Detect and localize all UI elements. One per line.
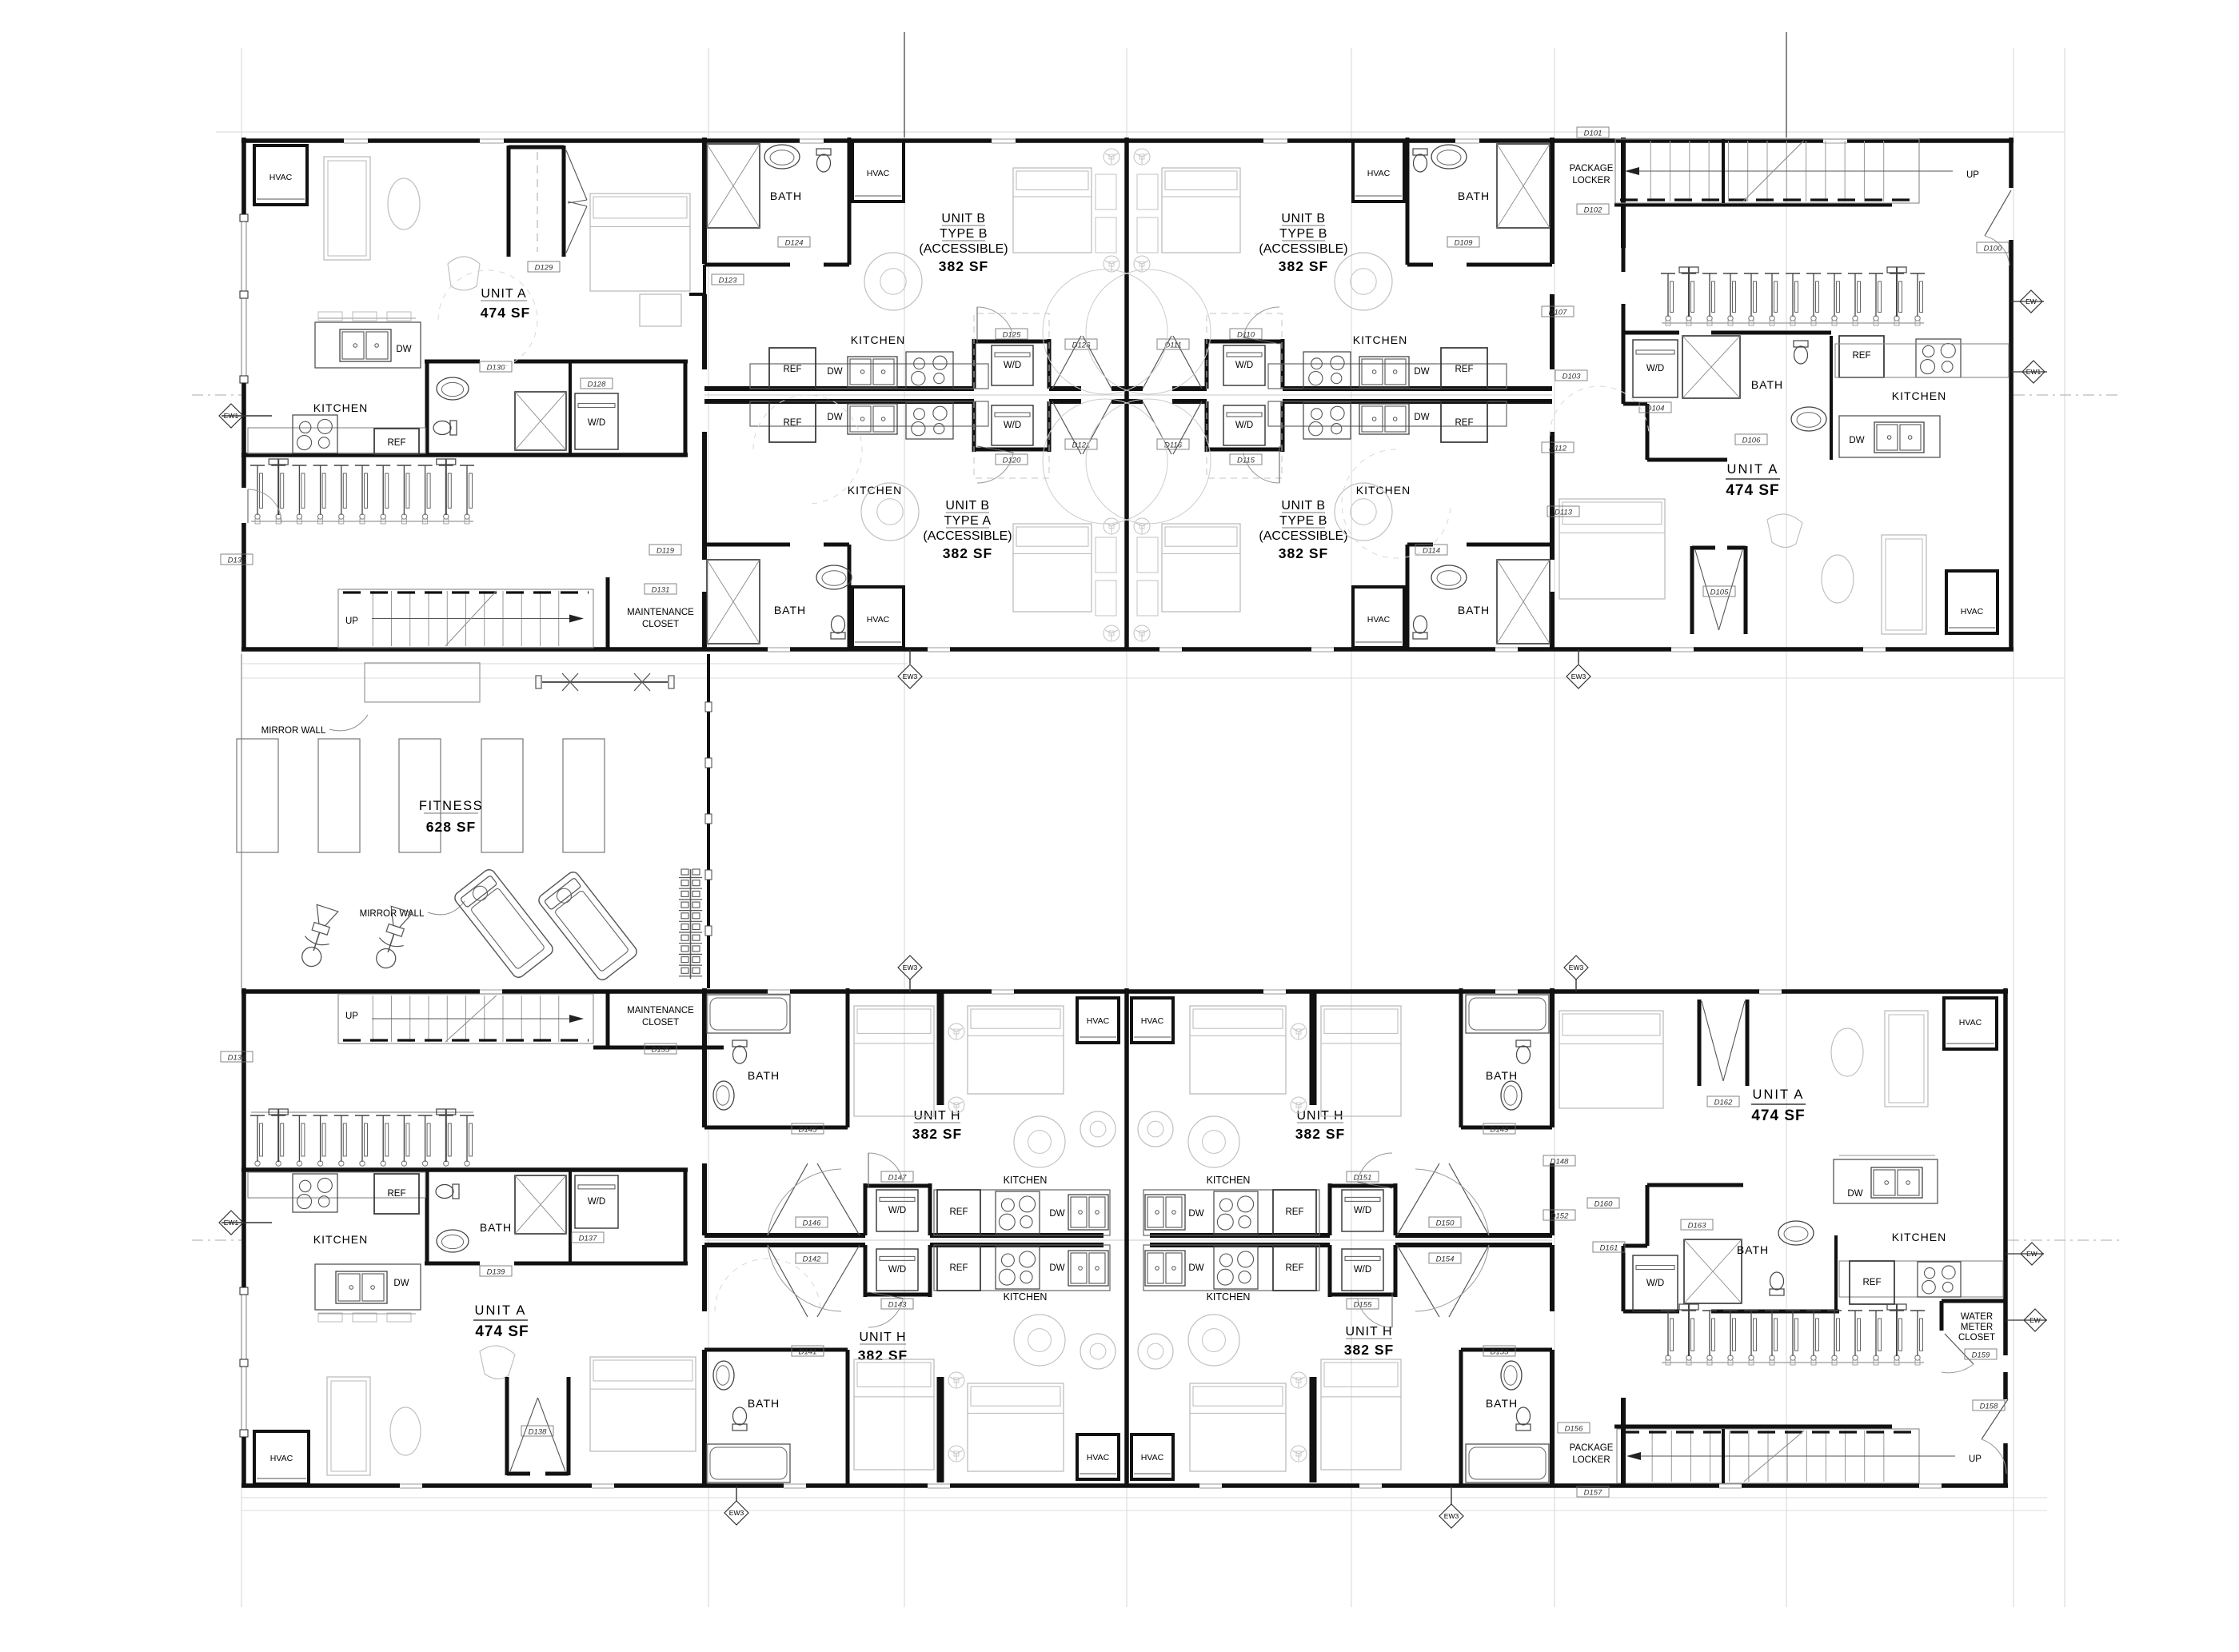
svg-text:BATH: BATH bbox=[770, 190, 802, 202]
hvac B top-right bbox=[1353, 141, 1404, 202]
unit A coffee table bbox=[388, 178, 420, 229]
hvac top bldg bottom-right bbox=[1946, 571, 1998, 633]
svg-text:BATH: BATH bbox=[748, 1397, 780, 1410]
bath B bottom-right toilet bbox=[1413, 616, 1427, 639]
H cluster mid wall bbox=[1124, 988, 1129, 1486]
svg-text:UNIT A: UNIT A bbox=[1753, 1087, 1805, 1102]
svg-text:D124: D124 bbox=[785, 239, 804, 248]
wd closet bottom-left bbox=[972, 401, 976, 452]
corridor south wall bbox=[704, 399, 974, 404]
svg-text:REF: REF bbox=[388, 438, 406, 448]
svg-text:382 SF: 382 SF bbox=[939, 258, 988, 274]
top building outer wall right bbox=[2009, 138, 2014, 188]
kitchen run B top-right bbox=[1268, 364, 1507, 389]
svg-text:D163: D163 bbox=[1688, 1222, 1706, 1231]
beds B cluster bottom pair bbox=[1013, 524, 1092, 612]
svg-text:HVAC: HVAC bbox=[1087, 1453, 1110, 1462]
unit A right middle band walls bbox=[1623, 331, 1679, 335]
svg-text:D162: D162 bbox=[1714, 1099, 1733, 1107]
svg-text:KITCHEN: KITCHEN bbox=[1356, 484, 1411, 497]
svg-text:UNIT B: UNIT B bbox=[945, 499, 989, 513]
svg-text:D150: D150 bbox=[1436, 1219, 1455, 1228]
H cluster stub wall bottom-left bbox=[937, 1377, 944, 1482]
svg-text:D159: D159 bbox=[1972, 1351, 1990, 1360]
svg-text:TYPE B: TYPE B bbox=[940, 227, 988, 241]
unit A bottom counter band bbox=[248, 1172, 425, 1198]
svg-text:D101: D101 bbox=[1584, 130, 1602, 138]
svg-text:D105: D105 bbox=[1710, 589, 1729, 597]
svg-text:DW: DW bbox=[393, 1279, 409, 1288]
svg-text:D129: D129 bbox=[535, 264, 553, 273]
unit A bath / wd divider bbox=[569, 361, 572, 455]
stairs bottom-right bbox=[1617, 1429, 1919, 1483]
bike rack top-left bbox=[250, 465, 265, 466]
svg-text:(ACCESSIBLE): (ACCESSIBLE) bbox=[1259, 529, 1347, 543]
svg-text:D111: D111 bbox=[1164, 341, 1181, 350]
svg-text:D142: D142 bbox=[803, 1255, 821, 1264]
svg-text:D115: D115 bbox=[1237, 457, 1255, 465]
svg-text:EW3: EW3 bbox=[1571, 672, 1586, 680]
svg-text:KITCHEN: KITCHEN bbox=[1207, 1175, 1251, 1186]
H entry arcs wd bbox=[868, 1153, 903, 1182]
svg-text:KITCHEN: KITCHEN bbox=[851, 333, 905, 346]
bath B top-left walls bbox=[704, 263, 790, 267]
svg-text:D109: D109 bbox=[1455, 239, 1473, 248]
unit A BR wd bbox=[1633, 1255, 1678, 1311]
svg-text:D148: D148 bbox=[1551, 1158, 1569, 1167]
unit A chair bbox=[448, 257, 480, 290]
B cluster east wall bbox=[1550, 138, 1555, 264]
svg-text:D102: D102 bbox=[1584, 206, 1602, 215]
svg-text:(ACCESSIBLE): (ACCESSIBLE) bbox=[1259, 242, 1347, 256]
B cluster mid wall bbox=[1124, 138, 1129, 649]
beds B cluster top pair bbox=[1013, 168, 1092, 253]
svg-text:D155: D155 bbox=[1354, 1301, 1372, 1310]
H kitchen run top-left bbox=[934, 1190, 1110, 1235]
unit A BR stove bbox=[1918, 1262, 1961, 1297]
treadmill 1 bbox=[453, 868, 556, 980]
H corridor south wall bbox=[704, 1243, 865, 1247]
svg-text:HVAC: HVAC bbox=[1959, 1018, 1982, 1028]
unit A bath sink bbox=[437, 377, 469, 400]
hvac B bottom-right bbox=[1353, 587, 1404, 648]
svg-text:KITCHEN: KITCHEN bbox=[848, 484, 902, 497]
bath B top-right toilet bbox=[1413, 149, 1427, 172]
svg-text:UNIT H: UNIT H bbox=[859, 1331, 906, 1344]
unit A bottom kitchen top wall bbox=[241, 1167, 688, 1172]
unit A kitchen fridge bbox=[374, 429, 419, 454]
bath B top-left shower bbox=[707, 144, 760, 228]
svg-text:DW: DW bbox=[1414, 413, 1429, 422]
svg-text:474 SF: 474 SF bbox=[475, 1323, 529, 1340]
svg-text:382 SF: 382 SF bbox=[858, 1347, 908, 1363]
svg-text:LOCKER: LOCKER bbox=[1572, 176, 1610, 186]
svg-text:D149: D149 bbox=[1491, 1126, 1509, 1135]
bath B bottom-left walls bbox=[704, 543, 790, 547]
maintenance closet walls bbox=[606, 577, 610, 649]
tag D107 bbox=[1542, 306, 1574, 317]
unit A right bath east wall bbox=[1830, 336, 1833, 460]
unit A bottom bath fixtures bbox=[436, 1184, 459, 1199]
corridor center gray line bottom building bbox=[704, 1239, 1552, 1241]
bath B bottom-right walls bbox=[1407, 543, 1433, 547]
svg-text:EW3: EW3 bbox=[903, 672, 918, 680]
svg-text:EW3: EW3 bbox=[903, 964, 918, 972]
svg-text:PACKAGE: PACKAGE bbox=[1570, 1443, 1614, 1453]
svg-text:DW: DW bbox=[1188, 1209, 1203, 1219]
svg-text:W/D: W/D bbox=[1354, 1265, 1371, 1275]
unit A bottom stools bbox=[318, 1313, 342, 1322]
unit A right shower bbox=[1682, 336, 1740, 398]
hvac bottom-left bbox=[254, 1431, 309, 1484]
EW3 markers below top building bbox=[898, 664, 922, 688]
svg-text:BATH: BATH bbox=[1751, 378, 1783, 391]
svg-text:HVAC: HVAC bbox=[270, 1454, 293, 1463]
svg-text:D154: D154 bbox=[1436, 1255, 1455, 1264]
wd closet bottom-right bbox=[1205, 401, 1209, 452]
turning circle bottom unit A bbox=[715, 1259, 820, 1311]
bath H bottom-left bbox=[704, 1348, 848, 1352]
svg-text:D100: D100 bbox=[1984, 245, 2002, 253]
svg-text:W/D: W/D bbox=[588, 1197, 605, 1207]
treadmill 2 bbox=[537, 870, 640, 983]
tag D128 bbox=[581, 378, 613, 389]
svg-text:REF: REF bbox=[388, 1189, 406, 1199]
svg-text:(ACCESSIBLE): (ACCESSIBLE) bbox=[919, 242, 1008, 256]
unit A sofa bbox=[324, 157, 370, 260]
svg-text:W/D: W/D bbox=[888, 1265, 906, 1275]
unit A BR bath east wall bbox=[1834, 1235, 1838, 1311]
svg-text:474 SF: 474 SF bbox=[1726, 482, 1779, 499]
bath B top-left toilet bbox=[816, 149, 831, 172]
svg-text:UNIT B: UNIT B bbox=[941, 212, 985, 225]
hvac B top-left bbox=[852, 141, 904, 202]
H double door arcs left bbox=[768, 1163, 808, 1235]
tag D112 D113 bbox=[1542, 442, 1574, 453]
H cluster stub wall top-right bbox=[1310, 992, 1317, 1105]
unit A left kitchen bottom wall bbox=[241, 453, 688, 457]
svg-text:W/D: W/D bbox=[1004, 421, 1021, 430]
svg-text:REF: REF bbox=[1863, 1278, 1882, 1287]
svg-text:REF: REF bbox=[1455, 418, 1474, 428]
svg-text:REF: REF bbox=[1853, 351, 1871, 361]
stair hall south wall bbox=[1614, 203, 1892, 207]
svg-text:UP: UP bbox=[345, 617, 358, 626]
stair mid divider bbox=[1722, 139, 1725, 203]
bath B top-left sink bbox=[764, 145, 800, 169]
unit A right bath sink bbox=[1791, 407, 1826, 431]
svg-text:D137: D137 bbox=[579, 1235, 597, 1243]
svg-text:CLOSET: CLOSET bbox=[642, 1018, 679, 1028]
H beds and tables bbox=[854, 1006, 934, 1116]
nightstands B bottom bbox=[1096, 537, 1116, 573]
unit A right wd bbox=[1633, 340, 1678, 397]
svg-text:CLOSET: CLOSET bbox=[1958, 1333, 1995, 1343]
svg-text:REF: REF bbox=[1286, 1263, 1304, 1273]
svg-text:MIRROR WALL: MIRROR WALL bbox=[261, 726, 326, 736]
svg-text:DW: DW bbox=[1414, 367, 1429, 377]
bath B top-right sink bbox=[1431, 145, 1467, 169]
svg-text:D131: D131 bbox=[652, 586, 670, 595]
unit A bottom stove bbox=[293, 1174, 337, 1212]
unit A bottom closet D138 bbox=[505, 1377, 509, 1475]
wd closet top-left bbox=[972, 339, 976, 389]
svg-text:BATH: BATH bbox=[1737, 1243, 1769, 1256]
svg-text:D112: D112 bbox=[1549, 445, 1567, 453]
svg-text:W/D: W/D bbox=[1235, 361, 1253, 370]
svg-text:BATH: BATH bbox=[1486, 1397, 1518, 1410]
stairs bottom building left bbox=[338, 994, 593, 1043]
window gaps bottom bldg top wall bbox=[480, 988, 502, 996]
H kitchen run bottom-left bbox=[934, 1245, 1110, 1291]
tag D103 bbox=[1555, 370, 1587, 381]
round tables B cluster bbox=[864, 253, 922, 310]
svg-text:D128: D128 bbox=[588, 381, 606, 389]
svg-text:HVAC: HVAC bbox=[867, 615, 890, 624]
svg-text:DW: DW bbox=[827, 413, 842, 422]
wd closet H top-right bbox=[1328, 1183, 1332, 1235]
EW1 marker left bottom building bbox=[219, 1211, 243, 1235]
svg-text:UP: UP bbox=[345, 1012, 358, 1021]
top building outer wall bottom bbox=[241, 647, 2014, 652]
svg-text:DW: DW bbox=[396, 345, 411, 354]
svg-text:UNIT A: UNIT A bbox=[481, 287, 526, 301]
svg-text:D134: D134 bbox=[228, 1054, 246, 1063]
stair hall west wall bbox=[1621, 138, 1626, 248]
unit A kitchen stove bbox=[293, 415, 337, 453]
top building outer wall left bbox=[241, 138, 246, 214]
window gaps bottom bldg bottom wall bbox=[400, 1482, 422, 1490]
svg-text:REF: REF bbox=[950, 1263, 968, 1273]
svg-text:W/D: W/D bbox=[1646, 1279, 1664, 1288]
svg-text:D123: D123 bbox=[719, 277, 737, 285]
unit A kitchen counter band bbox=[248, 428, 425, 453]
unit A shower bbox=[515, 392, 566, 450]
EW markers right bottom building bbox=[2021, 1243, 2043, 1265]
bath B top-right shower bbox=[1497, 144, 1550, 228]
svg-text:628 SF: 628 SF bbox=[426, 819, 476, 835]
svg-text:D132: D132 bbox=[228, 557, 246, 565]
svg-text:TYPE A: TYPE A bbox=[944, 514, 991, 528]
unit A bath west wall bbox=[425, 361, 429, 455]
svg-text:BATH: BATH bbox=[1458, 604, 1490, 617]
nightstands B top bbox=[1096, 174, 1116, 209]
svg-text:KITCHEN: KITCHEN bbox=[1207, 1291, 1251, 1303]
section tick top markers bbox=[904, 32, 905, 138]
left wall door gap bbox=[240, 488, 248, 523]
window gaps bottom wall bbox=[768, 645, 790, 653]
svg-text:MAINTENANCE: MAINTENANCE bbox=[627, 1006, 694, 1016]
corridor double doors bottom bbox=[1052, 401, 1081, 454]
hvac top-left closet bbox=[254, 146, 307, 205]
unit A right oval table bbox=[1822, 555, 1854, 603]
svg-text:EW3: EW3 bbox=[1569, 964, 1584, 972]
svg-text:KITCHEN: KITCHEN bbox=[1892, 389, 1946, 402]
H corridor north wall bbox=[704, 1233, 865, 1238]
svg-text:REF: REF bbox=[1455, 365, 1474, 374]
bath B top-right walls bbox=[1407, 263, 1433, 267]
svg-text:FITNESS: FITNESS bbox=[419, 799, 483, 813]
svg-text:D130: D130 bbox=[487, 364, 505, 373]
svg-text:TYPE B: TYPE B bbox=[1279, 227, 1327, 241]
svg-text:LOCKER: LOCKER bbox=[1572, 1455, 1610, 1465]
unit A right closet D105 bbox=[1690, 546, 1694, 634]
svg-text:D106: D106 bbox=[1742, 437, 1761, 445]
svg-text:382 SF: 382 SF bbox=[1279, 545, 1328, 561]
svg-text:WATER: WATER bbox=[1961, 1312, 1993, 1322]
bottom building outer wall right bbox=[2003, 988, 2008, 1355]
water meter closet bbox=[1942, 1299, 2006, 1303]
kitchen run B bottom-right bbox=[1268, 401, 1507, 426]
svg-text:KITCHEN: KITCHEN bbox=[1004, 1175, 1048, 1186]
svg-text:D157: D157 bbox=[1584, 1489, 1602, 1498]
stairs top building left bbox=[338, 589, 593, 648]
svg-text:D145: D145 bbox=[799, 1126, 817, 1135]
svg-text:D107: D107 bbox=[1549, 309, 1567, 317]
svg-text:D103: D103 bbox=[1563, 373, 1581, 381]
svg-text:REF: REF bbox=[950, 1207, 968, 1217]
svg-text:BATH: BATH bbox=[480, 1221, 512, 1234]
svg-text:HVAC: HVAC bbox=[1141, 1453, 1164, 1462]
svg-text:METER: METER bbox=[1961, 1323, 1993, 1332]
wd closet top-right bbox=[1205, 339, 1209, 389]
svg-text:KITCHEN: KITCHEN bbox=[1004, 1291, 1048, 1303]
svg-text:KITCHEN: KITCHEN bbox=[313, 1233, 368, 1246]
EW markers below bottom building bbox=[724, 1501, 748, 1525]
unit A bottom wd bbox=[575, 1175, 618, 1228]
svg-text:MAINTENANCE: MAINTENANCE bbox=[627, 608, 694, 617]
vestibule dashed outlines bbox=[974, 313, 1049, 389]
turning radius dashed circle unit A bbox=[438, 270, 537, 369]
turning circles B cluster bbox=[753, 395, 862, 504]
svg-text:DW: DW bbox=[1849, 436, 1864, 445]
tags bottom right section bbox=[1587, 1198, 1619, 1208]
unit A wardrobe bbox=[640, 294, 681, 326]
svg-text:HVAC: HVAC bbox=[1961, 607, 1984, 617]
svg-text:D104: D104 bbox=[1646, 405, 1665, 413]
window gaps top wall bbox=[344, 137, 368, 145]
unit A bottom bed bbox=[590, 1357, 696, 1451]
barbell rack bbox=[542, 681, 668, 683]
fitness right wall bbox=[707, 654, 710, 988]
unit A bed bbox=[590, 194, 690, 291]
svg-text:382 SF: 382 SF bbox=[1344, 1342, 1394, 1358]
H double door arcs right bbox=[1449, 1163, 1489, 1235]
svg-text:D156: D156 bbox=[1565, 1425, 1583, 1434]
svg-text:HVAC: HVAC bbox=[1087, 1016, 1110, 1026]
svg-text:HVAC: HVAC bbox=[1367, 615, 1391, 624]
svg-text:474 SF: 474 SF bbox=[481, 305, 530, 321]
unit A BR fridge bbox=[1850, 1261, 1894, 1304]
stair mid divider bottom bbox=[1722, 1429, 1725, 1483]
svg-text:UNIT B: UNIT B bbox=[1281, 499, 1325, 513]
svg-text:DW: DW bbox=[1049, 1209, 1064, 1219]
svg-text:UNIT A: UNIT A bbox=[1727, 462, 1779, 477]
door arc D158 bottom right bbox=[1982, 1399, 2008, 1439]
unit A BR bath sink bbox=[1778, 1221, 1814, 1245]
stairs top-right bbox=[1615, 139, 1919, 203]
unit A bottom bath walls bbox=[425, 1262, 480, 1266]
svg-text:W/D: W/D bbox=[1646, 364, 1664, 373]
svg-text:KITCHEN: KITCHEN bbox=[1353, 333, 1407, 346]
unit A right fridge bbox=[1839, 336, 1884, 377]
unit A BR shower bbox=[1684, 1239, 1742, 1303]
wd closet H top-left bbox=[864, 1183, 868, 1235]
svg-text:EW3: EW3 bbox=[729, 1509, 744, 1517]
svg-text:(ACCESSIBLE): (ACCESSIBLE) bbox=[923, 529, 1012, 543]
unit A bottom island bbox=[315, 1264, 421, 1310]
unit A bath toilet bbox=[433, 421, 457, 435]
H cluster east wall bbox=[1550, 988, 1555, 1127]
bottom building outer wall left bbox=[241, 988, 246, 1287]
svg-text:D135: D135 bbox=[652, 1046, 670, 1055]
svg-text:D160: D160 bbox=[1594, 1200, 1613, 1209]
unit A left bath top wall bbox=[425, 360, 480, 364]
H cluster west wall bbox=[702, 988, 707, 1127]
svg-text:382 SF: 382 SF bbox=[1279, 258, 1328, 274]
svg-text:D147: D147 bbox=[888, 1174, 907, 1183]
unit A left bath-corridor east wall bbox=[684, 361, 688, 455]
unit A bottom sofa bbox=[327, 1377, 370, 1475]
svg-text:REF: REF bbox=[1286, 1207, 1304, 1217]
svg-text:D114: D114 bbox=[1423, 547, 1440, 556]
svg-text:D146: D146 bbox=[803, 1219, 821, 1228]
H kitchen run top-right bbox=[1143, 1190, 1319, 1235]
svg-text:DW: DW bbox=[827, 367, 842, 377]
svg-text:EW3: EW3 bbox=[1444, 1512, 1459, 1520]
svg-text:474 SF: 474 SF bbox=[1751, 1107, 1805, 1124]
bath B bottom-right shower bbox=[1497, 560, 1550, 644]
unit A right bed bbox=[1559, 499, 1665, 599]
bath H bottom-right bbox=[1461, 1348, 1552, 1352]
unit A kitchen stools bbox=[318, 312, 342, 321]
svg-text:D158: D158 bbox=[1980, 1403, 1998, 1411]
svg-text:UNIT B: UNIT B bbox=[1281, 212, 1325, 225]
corridor north wall bbox=[704, 386, 974, 391]
fan symbols H cluster bbox=[948, 1024, 964, 1039]
svg-text:UNIT A: UNIT A bbox=[475, 1303, 527, 1318]
hvac pair top middle bbox=[1077, 998, 1119, 1043]
svg-text:UNIT H: UNIT H bbox=[1345, 1325, 1392, 1339]
unit A BR bed bbox=[1559, 1011, 1663, 1108]
bike rack bottom-left bbox=[250, 1115, 265, 1116]
svg-text:D161: D161 bbox=[1600, 1244, 1618, 1253]
bottom building outer wall bottom bbox=[241, 1483, 2008, 1488]
unit A washer-dryer closet bbox=[575, 393, 618, 449]
bath B bottom-left shower bbox=[707, 560, 760, 644]
svg-text:HVAC: HVAC bbox=[269, 173, 293, 182]
svg-text:D143: D143 bbox=[888, 1301, 907, 1310]
bike rack bottom-right bbox=[1661, 1310, 1675, 1311]
svg-text:DW: DW bbox=[1188, 1263, 1203, 1273]
svg-text:D119: D119 bbox=[657, 547, 675, 556]
maintenance closet bottom walls bbox=[606, 992, 610, 1047]
svg-text:W/D: W/D bbox=[888, 1206, 906, 1215]
unit A BR sofa bbox=[1885, 1011, 1928, 1107]
tag D130 bbox=[480, 361, 512, 372]
svg-text:D141: D141 bbox=[799, 1348, 817, 1357]
exercise bike 2 bbox=[371, 906, 414, 972]
unit A right counter bbox=[1835, 344, 2009, 377]
svg-text:W/D: W/D bbox=[1004, 361, 1021, 370]
door arc D100 top right bbox=[1985, 190, 2011, 236]
EW markers right top building bbox=[2020, 290, 2042, 313]
wd closet H bottom-left bbox=[864, 1245, 868, 1297]
svg-text:D138: D138 bbox=[529, 1428, 547, 1437]
chain ladder bbox=[681, 869, 688, 875]
svg-text:UP: UP bbox=[1966, 170, 1979, 180]
bath H top-right bbox=[1461, 1126, 1552, 1130]
